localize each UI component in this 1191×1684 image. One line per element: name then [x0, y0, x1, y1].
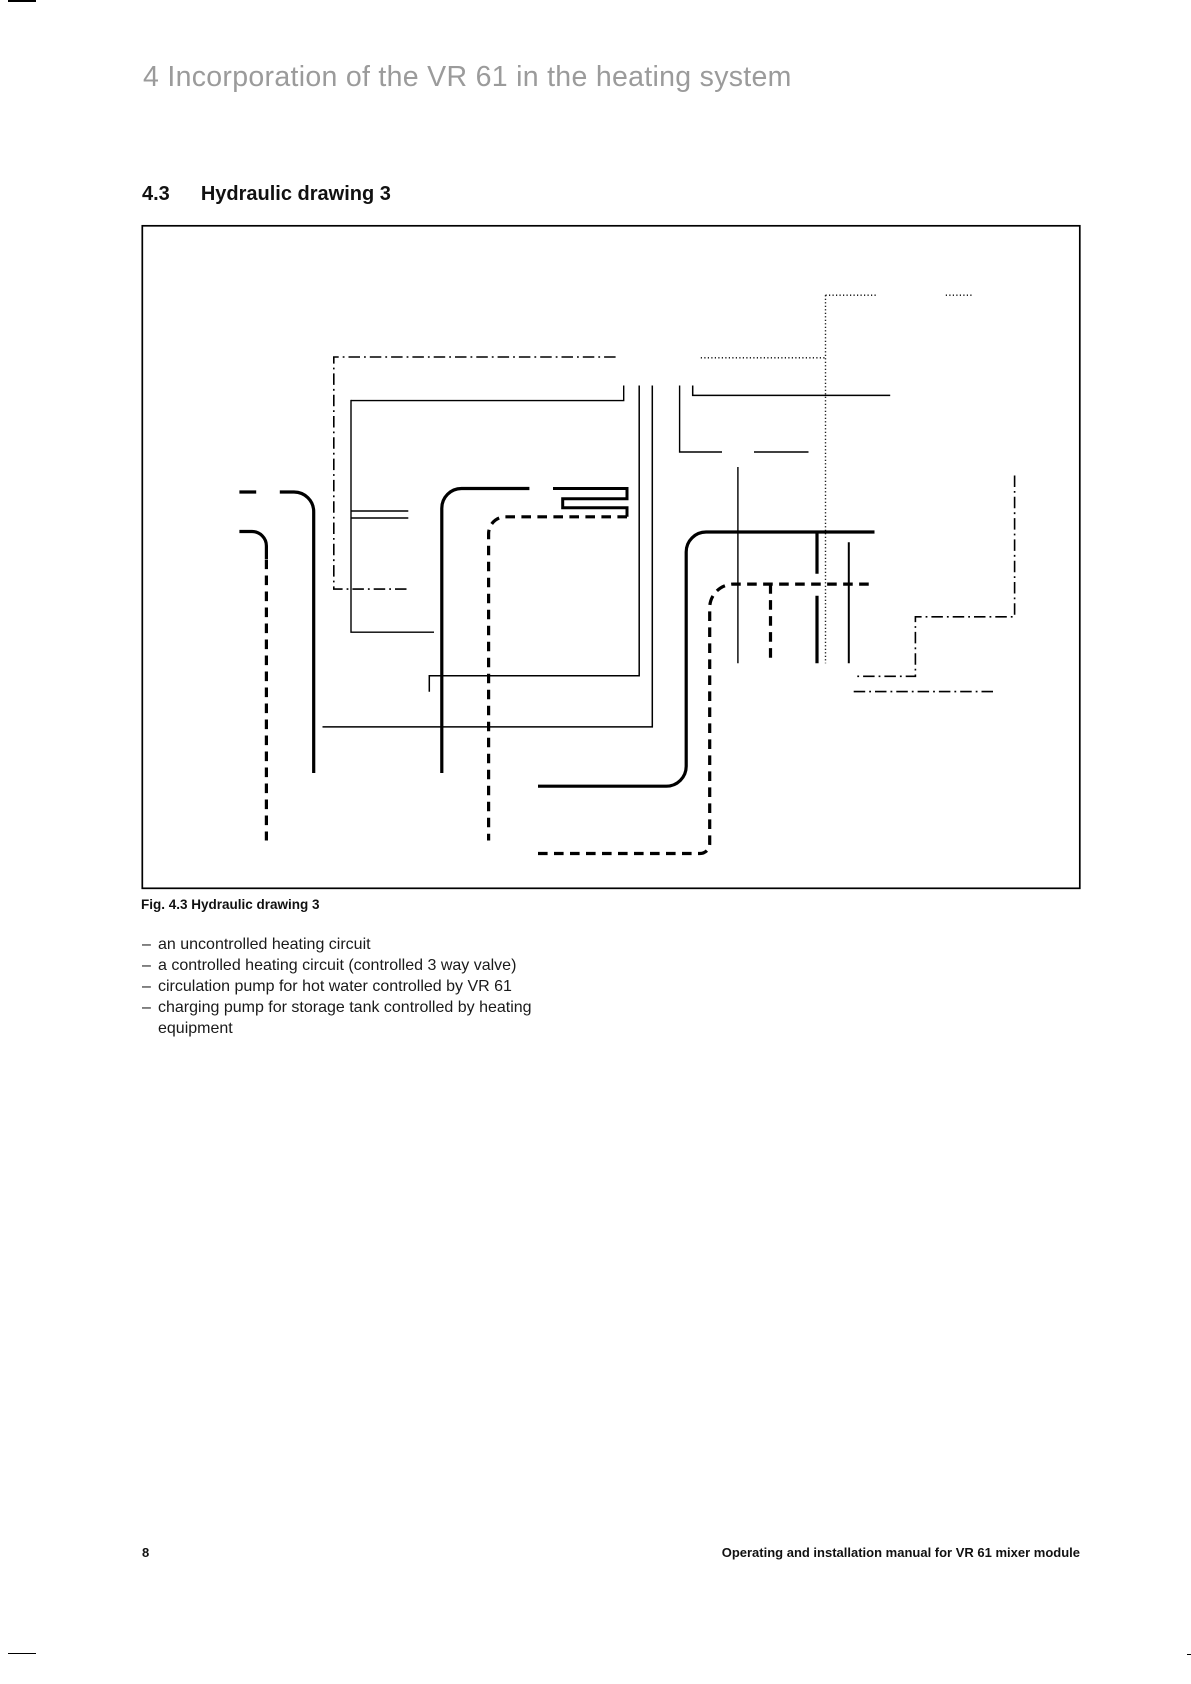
pipe floor heating serpentine [553, 489, 627, 517]
wire 230V box to right [754, 451, 809, 453]
wire VR61 to 230V box [680, 386, 722, 453]
footer page number [142, 1545, 149, 1560]
wire pair to sensor VRC 9642 [351, 511, 408, 518]
pipe boiler flow to manifold [538, 532, 875, 786]
wire VR61 left foot to sensor bus [351, 386, 624, 401]
wire VR61 right foot to pump ZP [693, 386, 891, 396]
diagram frame [142, 226, 1080, 889]
pipe HK2 return dashed [489, 517, 627, 841]
pipe branch boiler to flow line [815, 533, 818, 663]
bullet list [142, 935, 532, 1040]
pipe HK2 flow (mixer to floor circuit) [442, 489, 530, 774]
wire VR61 to pump HK1-P [323, 386, 653, 727]
print mark bottom-left [8, 1653, 36, 1655]
pipe HK1 flow (radiator to manifold) [239, 492, 313, 773]
header [143, 61, 792, 94]
wire VR61 to mixer HK2 [429, 386, 639, 692]
pipe return manifold to tank coil (dashed) [538, 584, 875, 853]
pipe boiler return branch (dashed) [769, 584, 772, 663]
dash-dot line VR61 to VF2 sensor [334, 357, 616, 589]
print mark top-left [8, 0, 36, 2]
pipe LP to boiler [848, 542, 850, 663]
footer right text [722, 1545, 1080, 1560]
pipe HK1 return (radiator, solid part) [239, 532, 266, 560]
section title [142, 183, 391, 206]
dotted line VR61 to bus node [701, 357, 826, 359]
dash-dot line boiler to AF sensor [854, 691, 995, 693]
print mark bottom-right [1187, 1654, 1191, 1656]
wire 230V box to boiler [737, 467, 739, 663]
dash-dot line SP1 sensor to boiler [854, 476, 1015, 677]
dotted line to VRC 430 [826, 295, 972, 663]
figure caption [141, 897, 320, 912]
wire bus to pump HK2-P [351, 400, 434, 632]
pipe HK1 return dashed [265, 560, 268, 841]
